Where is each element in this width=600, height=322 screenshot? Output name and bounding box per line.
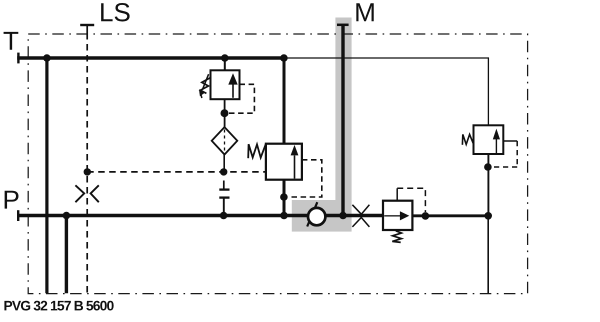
- wire F1 to LS node: [223, 154, 225, 172]
- port P tick: [17, 210, 19, 221]
- junction node P/M: [339, 212, 347, 220]
- junction node LS branch: [84, 168, 91, 175]
- junction node P branch: [63, 212, 71, 220]
- check valve CV1 ball: [308, 208, 325, 225]
- wire P right of valve: [412, 214, 489, 217]
- junction node U2 pilot: [280, 193, 288, 201]
- junction node U4 pilot: [484, 163, 492, 171]
- right relief valve U4 body: [474, 125, 504, 154]
- LS relief valve U3 spring: [392, 231, 401, 243]
- wire U4 bottom stub: [487, 154, 489, 216]
- wire M line: [341, 25, 344, 216]
- plug bar upper: [219, 188, 229, 190]
- right relief valve U4 arrow: [493, 129, 500, 154]
- pilot line U3 (dashed): [397, 188, 425, 212]
- wire P main (thick): [17, 214, 384, 218]
- plug symbol upper stub: [223, 181, 225, 190]
- junction node U1 pilot: [221, 109, 229, 117]
- filter F1 diamond: [212, 127, 238, 154]
- wire LS horizontal (dashed): [87, 171, 266, 173]
- plug bar lower: [219, 196, 229, 198]
- wire valve U2 top stub (thick): [283, 57, 286, 144]
- wire T thin to right valve: [284, 58, 488, 125]
- junction node T-branch: [43, 54, 51, 62]
- enclosure dash-dot border: [28, 34, 527, 294]
- LS relief valve U3 arrow: [384, 211, 409, 220]
- port M tick: [337, 24, 349, 27]
- compensator valve U2 arrow: [291, 145, 299, 179]
- wire LS vertical (dashed): [86, 25, 88, 40]
- relief valve U1 arrow: [228, 73, 237, 98]
- wire P branch down (left): [65, 216, 68, 294]
- right relief valve U4 spring: [462, 134, 473, 144]
- junction node LS/plug: [220, 168, 227, 175]
- compensator valve U2 spring: [248, 144, 266, 158]
- junction node P/U2: [280, 212, 288, 220]
- relief valve U1 body: [211, 70, 240, 99]
- junction node P/plug: [220, 212, 228, 220]
- junction node P right corner: [484, 212, 492, 220]
- port label M: [356, 3, 373, 21]
- pilot line U4 (dashed): [503, 140, 517, 142]
- wire U1 bottom stub: [224, 99, 226, 127]
- wire right column to bottom border: [487, 216, 489, 294]
- port label T: [4, 32, 19, 50]
- gray highlight bar on M line: [335, 18, 351, 201]
- wire T main (thick): [17, 56, 285, 60]
- port label P: [5, 191, 19, 209]
- port label LS: [101, 3, 129, 21]
- check valve CV1 seat: [307, 202, 317, 226]
- relief valve U1 adjustable spring: [200, 74, 210, 98]
- junction node U3 pilot: [422, 212, 430, 220]
- compensator valve U2 body: [266, 144, 302, 180]
- port LS tick: [80, 24, 94, 26]
- wire U2 bottom stub (thick): [283, 180, 286, 216]
- orifice X on LS line: [75, 185, 98, 202]
- pilot line U2 (dashed): [289, 160, 322, 197]
- orifice X on P line: [352, 205, 369, 227]
- junction node T/U1: [221, 54, 229, 62]
- pilot line U3 solid stub: [396, 188, 398, 200]
- wire T branch down (left): [45, 56, 48, 293]
- filter F1 dashed element: [224, 130, 226, 153]
- pilot line U1 (dashed): [229, 84, 255, 113]
- wire valve U1 top stub: [224, 58, 226, 70]
- port T tick: [17, 53, 19, 64]
- junction node T/U2: [280, 54, 288, 62]
- LS relief valve U3 body: [383, 201, 412, 230]
- gray highlight block around check valve: [292, 200, 352, 232]
- type code text: [4, 301, 113, 311]
- plug symbol lower stub: [223, 198, 225, 216]
